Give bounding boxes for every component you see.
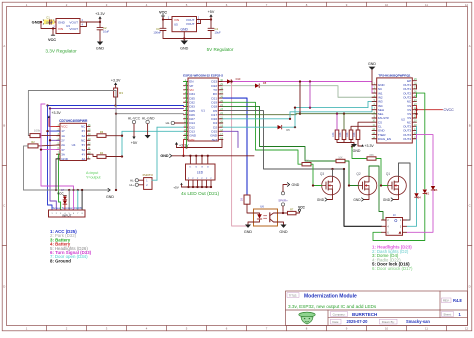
svg-text:A: A xyxy=(469,44,471,48)
svg-text:10K: 10K xyxy=(338,156,343,159)
LED module (4x LED) xyxy=(186,164,216,180)
svg-text:D6: D6 xyxy=(434,188,438,192)
svg-text:1Y: 1Y xyxy=(61,129,65,133)
wire xyxy=(162,17,172,20)
capacitor C2 xyxy=(97,22,109,33)
svg-text:8: Ground: 8: Ground xyxy=(50,258,71,263)
svg-text:VOUT: VOUT xyxy=(69,20,78,24)
svg-text:Company:: Company: xyxy=(333,312,346,316)
note 3.3V Regulator xyxy=(45,49,77,54)
svg-text:GND: GND xyxy=(61,157,68,161)
svg-text:C: C xyxy=(3,204,5,208)
svg-text:C: C xyxy=(469,204,471,208)
note 5V Regulator xyxy=(207,47,234,52)
svg-text:HL-VCC: HL-VCC xyxy=(128,116,141,120)
svg-text:D: D xyxy=(3,285,5,289)
power +5V (HL) xyxy=(131,137,138,145)
svg-text:+3.3V: +3.3V xyxy=(179,144,189,148)
svg-text:B: B xyxy=(469,124,471,128)
wire OUT4 (magenta) xyxy=(417,135,434,186)
svg-text:3.3v, ESP32, new output IC and: 3.3v, ESP32, new output IC and add LEDs xyxy=(288,304,377,309)
wire xyxy=(336,114,338,130)
svg-text:100k: 100k xyxy=(34,128,41,132)
power +3.3V (U4) xyxy=(47,111,61,126)
wire to J3 (cyan) xyxy=(407,198,417,226)
wire VS supply xyxy=(415,106,442,118)
diode D9 xyxy=(63,201,67,204)
wire xyxy=(278,212,288,214)
svg-text:PHOTO: PHOTO xyxy=(143,173,154,177)
wire xyxy=(84,21,101,27)
wire +5V rail (LED) xyxy=(182,180,213,188)
svg-text:HL-GND: HL-GND xyxy=(142,116,155,120)
power +3.3V (3.3V reg output) xyxy=(95,12,105,22)
power VCC (input) and wire xyxy=(57,189,66,210)
note 4x LED Out (D21) xyxy=(181,191,220,197)
ground xyxy=(96,30,105,51)
title block xyxy=(286,291,468,326)
svg-text:D: D xyxy=(469,285,471,289)
svg-text:HL: HL xyxy=(166,121,170,125)
svg-text:100nF: 100nF xyxy=(153,31,161,35)
svg-text:HL-: HL- xyxy=(130,178,135,182)
svg-text:6: Door unlock (D17): 6: Door unlock (D17) xyxy=(372,266,413,271)
diode D4 xyxy=(414,193,421,199)
svg-text:1: 1 xyxy=(51,213,52,215)
capacitor C4 xyxy=(208,20,221,39)
svg-text:CVCC: CVCC xyxy=(444,108,455,112)
svg-text:11: 11 xyxy=(425,327,428,331)
svg-text:Drawn By:: Drawn By: xyxy=(382,320,395,324)
wire dome loop (green) xyxy=(373,194,425,240)
svg-text:+5V: +5V xyxy=(208,10,215,14)
svg-text:10uF: 10uF xyxy=(103,29,109,33)
node SPKR+ xyxy=(278,198,288,211)
svg-text:U6: U6 xyxy=(260,205,264,209)
wire Q2 drain (green) xyxy=(369,166,386,220)
svg-text:4x LED Out (D21): 4x LED Out (D21) xyxy=(181,191,220,197)
power VCC (5V reg input) xyxy=(159,10,167,19)
power +3.3V (R3) xyxy=(111,78,121,85)
node HL-GND xyxy=(142,116,155,135)
power VCC (opto) xyxy=(298,205,305,211)
wire ACC vertical (blue) xyxy=(46,106,60,211)
wire photo net (cyan) xyxy=(157,127,184,180)
resistor R5 xyxy=(239,195,253,213)
svg-text:GND: GND xyxy=(368,62,376,66)
diode D7 xyxy=(63,197,67,200)
wire input5 xyxy=(68,190,70,210)
wire D17 (olive) xyxy=(223,114,300,115)
resistor R6 xyxy=(87,131,123,137)
transistor Q1 xyxy=(386,172,406,195)
wire to J3 (magenta) xyxy=(407,191,434,233)
svg-text:GND: GND xyxy=(353,198,361,202)
power +5V (LED) xyxy=(173,183,182,190)
svg-text:C3: C3 xyxy=(156,27,160,31)
diode D2 xyxy=(423,190,430,196)
svg-text:4A: 4A xyxy=(82,157,86,161)
wire branch magenta xyxy=(309,82,311,108)
wire turn-out net (cyan) xyxy=(121,131,184,157)
svg-text:11: 11 xyxy=(425,3,428,7)
svg-text:VCC: VCC xyxy=(159,10,167,14)
svg-text:D8: D8 xyxy=(263,81,267,85)
wire dash lights (cyan) xyxy=(294,101,377,127)
capacitor C3 xyxy=(153,20,166,35)
net label CVCC xyxy=(444,108,455,112)
wire input7 (cyan) xyxy=(77,190,79,210)
wire D18 gate (dark green) xyxy=(223,106,353,161)
wire door lock (black) xyxy=(344,169,382,226)
power +3.3V (pullup) xyxy=(358,140,374,149)
svg-text:INPUT: INPUT xyxy=(62,214,71,218)
wire photo to cyan xyxy=(152,179,157,181)
svg-text:Q3: Q3 xyxy=(320,172,324,176)
svg-text:10K: 10K xyxy=(346,132,349,137)
svg-text:6: 6 xyxy=(73,213,74,215)
svg-text:12: 12 xyxy=(465,3,469,7)
svg-text:LED: LED xyxy=(197,171,204,175)
svg-text:+5V: +5V xyxy=(131,141,138,145)
power flag GND (input rail) xyxy=(106,188,114,199)
wire battery (green) xyxy=(59,154,61,210)
svg-text:Screw_Terminal_01x08: Screw_Terminal_01x08 xyxy=(52,206,82,210)
svg-text:U1: U1 xyxy=(201,109,205,113)
diode D8 xyxy=(223,81,267,88)
svg-text:3A: 3A xyxy=(61,152,65,156)
svg-text:10K: 10K xyxy=(304,160,309,163)
svg-text:SPKR+: SPKR+ xyxy=(278,198,288,202)
svg-text:GND: GND xyxy=(383,198,391,202)
resistor R7 xyxy=(288,209,300,215)
high-side switch U2 xyxy=(372,73,417,143)
svg-text:Sheet:: Sheet: xyxy=(443,312,451,316)
svg-text:B: B xyxy=(3,124,5,128)
svg-text:GND: GND xyxy=(317,198,325,202)
power flag GND (3.3V reg input) xyxy=(32,20,46,25)
svg-text:ESP32-WROOM-32 ESP32-S: ESP32-WROOM-32 ESP32-S xyxy=(183,73,223,77)
svg-text:1K: 1K xyxy=(239,198,243,201)
svg-text:U5: U5 xyxy=(174,23,178,27)
wire xyxy=(40,21,56,30)
svg-text:GND: GND xyxy=(181,27,189,31)
svg-text:TPS4H160BQPWPRQ1: TPS4H160BQPWPRQ1 xyxy=(378,73,411,77)
wire xyxy=(163,31,211,40)
wire ground rail (gray) xyxy=(24,189,111,191)
resistor R12 and gate wire xyxy=(336,156,358,186)
wire park vertical (purple) xyxy=(49,109,60,211)
wire VIN feed xyxy=(182,140,184,157)
ground (pullups) xyxy=(351,144,361,153)
svg-text:15K: 15K xyxy=(369,153,374,157)
svg-text:+5V: +5V xyxy=(173,186,180,190)
resistor R1 xyxy=(28,128,60,137)
wire Q1 drain (gray) xyxy=(399,163,411,220)
svg-text:10K: 10K xyxy=(332,132,335,137)
power flag GND (spkr) xyxy=(287,183,300,188)
svg-text:GND: GND xyxy=(279,230,288,234)
svg-text:C4: C4 xyxy=(215,27,219,31)
resistor R4 xyxy=(87,152,123,158)
resistor R9 xyxy=(339,130,346,140)
transistor Q2 xyxy=(356,172,376,195)
svg-text:VOUT: VOUT xyxy=(186,22,195,26)
ground (opto in) xyxy=(244,222,254,234)
svg-text:VIN: VIN xyxy=(58,27,63,31)
svg-text:3.3V Regulator: 3.3V Regulator xyxy=(45,49,77,54)
svg-text:D5: D5 xyxy=(286,128,290,132)
svg-text:R4.8: R4.8 xyxy=(453,298,462,303)
resistor R2 xyxy=(24,140,61,190)
svg-text:VIN: VIN xyxy=(174,18,179,22)
wire xyxy=(201,18,213,23)
connector J4 PHOTO xyxy=(139,173,154,189)
svg-text:A=input: A=input xyxy=(86,171,98,175)
svg-text:10: 10 xyxy=(385,327,389,331)
svg-text:+3.3V: +3.3V xyxy=(95,12,105,16)
resistor R11 and gate wire xyxy=(302,160,322,187)
svg-text:GND: GND xyxy=(180,47,189,51)
svg-text:+3.3V: +3.3V xyxy=(111,78,121,82)
svg-text:GND: GND xyxy=(353,149,361,153)
svg-text:Q2: Q2 xyxy=(356,172,360,176)
regulator U5 xyxy=(172,17,202,32)
svg-text:2Y: 2Y xyxy=(61,139,65,143)
svg-text:6A: 6A xyxy=(82,134,86,138)
svg-text:10: 10 xyxy=(385,3,389,7)
wire EN pullup (green) xyxy=(184,82,187,148)
svg-text:CD74HC4050PWR: CD74HC4050PWR xyxy=(59,119,88,123)
wire Q3 drain xyxy=(332,169,334,176)
node HL-VCC xyxy=(128,116,141,136)
transistor Q3 xyxy=(320,172,340,195)
node HL+ pad xyxy=(129,183,138,187)
svg-text:10K: 10K xyxy=(339,132,342,137)
svg-text:10uF: 10uF xyxy=(215,31,221,35)
svg-text:Smacky-san: Smacky-san xyxy=(406,319,430,324)
node HL- pad xyxy=(130,178,138,182)
wire 3V3 loop xyxy=(177,140,223,149)
svg-text:GND: GND xyxy=(96,47,105,51)
wire D19 gate (green) xyxy=(223,102,302,164)
svg-text:U4: U4 xyxy=(72,143,76,147)
svg-text:OUT4: OUT4 xyxy=(403,137,411,141)
svg-text:1A: 1A xyxy=(61,134,65,138)
wire turn signal (magenta) xyxy=(40,104,75,210)
svg-text:U2: U2 xyxy=(401,118,405,122)
node SPKR- xyxy=(281,185,287,195)
svg-text:R3: R3 xyxy=(119,91,123,95)
svg-text:C2: C2 xyxy=(103,26,107,30)
svg-text:DIAG_EN: DIAG_EN xyxy=(378,137,391,141)
regulator U3 xyxy=(53,19,84,34)
svg-text:GND: GND xyxy=(58,20,66,24)
power flag GND (q2) xyxy=(353,195,369,202)
wire radio net (green) xyxy=(259,86,377,98)
svg-text:VCC: VCC xyxy=(298,205,305,209)
wire OUT3 (cyan) xyxy=(416,126,418,192)
svg-text:D4: D4 xyxy=(418,195,422,199)
wire OUT2 dome (green) xyxy=(417,93,425,189)
svg-text:Date:: Date: xyxy=(332,320,339,324)
svg-text:A: A xyxy=(3,44,5,48)
svg-text:4Y: 4Y xyxy=(82,152,86,156)
wire VCC feed (pink) xyxy=(230,80,248,226)
ground (HL) xyxy=(145,135,151,138)
wire U4 ground xyxy=(55,159,60,191)
wire SEL rail (olive) xyxy=(300,113,377,115)
wire headlight input loop (gray) xyxy=(28,91,117,192)
svg-text:Q1: Q1 xyxy=(386,172,390,176)
svg-text:C1: C1 xyxy=(46,16,50,20)
svg-text:VCC: VCC xyxy=(57,191,64,195)
svg-text:VIN: VIN xyxy=(189,138,194,142)
wire OUT1 join xyxy=(416,85,418,89)
wire GND rail (ESP32 bottom) xyxy=(172,155,254,164)
resistor R10 xyxy=(346,130,353,140)
svg-text:8: 8 xyxy=(82,213,83,215)
company logo xyxy=(299,312,315,324)
diode D10 xyxy=(223,77,241,84)
svg-text:Y=output: Y=output xyxy=(86,175,101,179)
power flag GND (q1) xyxy=(383,195,399,202)
svg-text:TITLE:: TITLE: xyxy=(289,293,298,297)
wire D5 door lock (gray) xyxy=(223,111,345,171)
power +3.3V (ESP32) xyxy=(175,142,189,148)
svg-text:5A: 5A xyxy=(82,148,86,152)
svg-text:GND: GND xyxy=(106,195,114,199)
svg-text:VCC: VCC xyxy=(48,38,56,42)
wire D15 (purple) xyxy=(223,131,238,147)
wire resistor commons xyxy=(337,140,354,145)
svg-text:10K: 10K xyxy=(353,132,356,137)
svg-text:+3.3V: +3.3V xyxy=(365,144,375,148)
wire CS xyxy=(358,122,372,130)
svg-text:GND: GND xyxy=(244,230,253,234)
connector J3 xyxy=(382,213,407,235)
svg-text:5V Regulator: 5V Regulator xyxy=(207,47,234,52)
wire headlights-in net (gray) xyxy=(115,113,184,115)
wire headlights net (magenta) xyxy=(231,80,377,93)
svg-text:Modernization Module: Modernization Module xyxy=(304,293,357,299)
wire D16 (cyan) xyxy=(223,106,377,120)
svg-text:REV:: REV: xyxy=(443,299,450,303)
hex buffer U4 xyxy=(57,119,92,161)
ESP32 module U1 xyxy=(183,73,223,141)
svg-text:GND: GND xyxy=(32,20,41,25)
svg-text:3Y: 3Y xyxy=(61,148,65,152)
svg-text:12: 12 xyxy=(465,327,469,331)
svg-text:6Y: 6Y xyxy=(82,129,86,133)
power VCC (3.3V reg) xyxy=(48,29,56,42)
power flag GND (q3) xyxy=(317,195,333,202)
legend input pins xyxy=(50,229,92,263)
power flag GND (rail) xyxy=(160,154,171,158)
svg-text:R2: R2 xyxy=(31,140,35,144)
legend output pins xyxy=(372,245,413,272)
ground xyxy=(180,32,189,51)
svg-text:GND: GND xyxy=(160,154,169,158)
diode D6 xyxy=(431,186,438,192)
svg-text:HL+: HL+ xyxy=(129,183,135,187)
svg-text:7: 7 xyxy=(77,213,78,215)
svg-text:3V3: 3V3 xyxy=(212,138,218,142)
diode D5 xyxy=(223,125,290,132)
resistor R11 xyxy=(353,130,360,140)
note A=input Y=output xyxy=(86,171,101,179)
wire ACC net (blue) xyxy=(46,104,183,106)
ground (opto out) xyxy=(278,222,288,234)
capacitor C1 xyxy=(44,16,55,25)
wire CL xyxy=(351,126,372,130)
svg-text:+3.3V: +3.3V xyxy=(52,111,62,115)
svg-text:D10: D10 xyxy=(236,77,241,81)
svg-text:5Y: 5Y xyxy=(82,143,86,147)
svg-text:VOUT: VOUT xyxy=(69,27,78,31)
svg-text:3: 3 xyxy=(60,213,61,215)
wire branch xyxy=(299,82,301,115)
svg-text:BURRTECH: BURRTECH xyxy=(352,312,377,317)
power +5V (5V reg output) xyxy=(208,10,215,19)
wire xyxy=(282,126,296,128)
wire park net (purple) xyxy=(49,107,184,109)
svg-text:D2: D2 xyxy=(426,192,430,196)
ground (U2) xyxy=(368,62,376,85)
node HL xyxy=(166,121,184,125)
wire xyxy=(45,21,56,23)
resistor R3 xyxy=(114,85,124,106)
wire xyxy=(343,114,345,130)
wire D21 LED data (blue) xyxy=(223,98,247,195)
connector J1 INPUT xyxy=(49,206,86,218)
svg-text:2025-07-20: 2025-07-20 xyxy=(347,319,369,324)
svg-text:2: 2 xyxy=(56,213,57,215)
svg-text:U3: U3 xyxy=(66,24,70,28)
svg-text:2A: 2A xyxy=(61,143,65,147)
resistor R13 15K and gate wire xyxy=(352,147,388,187)
svg-text:GND: GND xyxy=(292,183,300,187)
optocoupler U6 xyxy=(254,205,278,226)
svg-text:VCC: VCC xyxy=(61,125,68,129)
wire input8 (black) xyxy=(81,190,83,210)
resistor R8 xyxy=(332,130,339,140)
